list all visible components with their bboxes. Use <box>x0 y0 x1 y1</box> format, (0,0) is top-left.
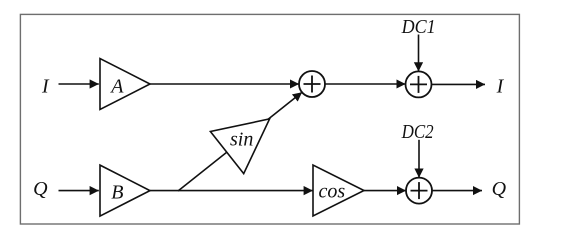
amplifier A <box>100 59 150 110</box>
wire cos to summer S3 <box>364 190 406 192</box>
wire output Q arrow <box>432 190 482 192</box>
summer S1 <box>299 71 325 97</box>
wire branch diagonal through sin to summer S1 <box>178 92 302 191</box>
svg-text:A: A <box>109 76 124 98</box>
svg-text:sin: sin <box>230 129 253 151</box>
svg-text:cos: cos <box>318 181 345 203</box>
border frame <box>20 14 519 224</box>
svg-text:I: I <box>41 76 50 98</box>
svg-text:Q: Q <box>492 178 507 200</box>
wire S1 to summer S2 <box>325 83 406 85</box>
wire A to summer S1 <box>150 83 299 85</box>
svg-text:I: I <box>496 76 505 98</box>
summer S3 <box>406 178 432 204</box>
summer S2 <box>406 71 432 97</box>
amplifier sin <box>210 119 269 174</box>
svg-text:DC2: DC2 <box>401 121 434 143</box>
wire output I arrow <box>432 83 486 85</box>
wire DC1 down arrow <box>418 35 420 72</box>
svg-text:Q: Q <box>33 178 48 200</box>
amplifier B <box>100 165 150 216</box>
wire DC2 down arrow <box>418 140 420 178</box>
wire input Q arrow <box>59 190 99 192</box>
wire input I arrow <box>59 83 99 85</box>
svg-text:B: B <box>111 181 123 203</box>
wire Q line to cos <box>150 190 313 192</box>
amplifier cos <box>313 165 364 216</box>
